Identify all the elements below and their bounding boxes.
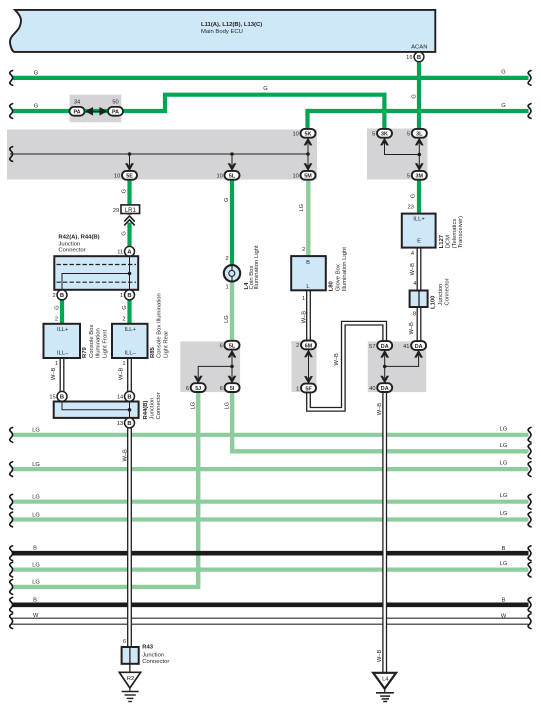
- wire G from R42 2B to R79: [60, 300, 64, 324]
- LG wire from 5I turning right: bus line 2: [232, 392, 528, 451]
- svg-text:LG: LG: [500, 493, 508, 499]
- svg-text:LG: LG: [500, 511, 508, 517]
- svg-text:LG: LG: [32, 512, 40, 518]
- svg-text:15: 15: [49, 395, 55, 401]
- terminal 2 B: [57, 290, 67, 300]
- terminal 5 3M: [407, 171, 427, 180]
- terminal 15 B: [57, 391, 67, 401]
- junction dot: [128, 272, 132, 276]
- svg-text:2: 2: [226, 256, 229, 262]
- G bus line 1: [12, 76, 529, 80]
- svg-text:2: 2: [53, 293, 56, 299]
- wire G from 5E to LR1 and to R42 A: [127, 180, 131, 205]
- svg-text:G: G: [34, 104, 38, 110]
- svg-text:R43: R43: [142, 645, 154, 651]
- G bus line 2 with step, to 3K: [12, 95, 384, 129]
- svg-text:G: G: [55, 305, 61, 309]
- LG bus line 1: [12, 433, 529, 437]
- gray connector shield block 2 (3K/3L/3M): [367, 129, 428, 180]
- svg-text:R44(B): R44(B): [143, 400, 149, 419]
- svg-text:13: 13: [117, 421, 123, 427]
- terminal 6 5J: [186, 383, 206, 392]
- LG wire from 5J turning left: bus line 8: [12, 392, 198, 587]
- svg-text:1: 1: [55, 361, 58, 367]
- svg-text:Transceiver): Transceiver): [458, 216, 464, 249]
- svg-text:B: B: [502, 598, 506, 604]
- svg-text:B: B: [306, 260, 310, 266]
- svg-text:10: 10: [292, 132, 298, 138]
- LG bus line 5: [12, 517, 529, 521]
- svg-text:L4: L4: [382, 677, 389, 683]
- svg-text:L80: L80: [329, 280, 335, 291]
- svg-text:B: B: [60, 395, 64, 401]
- svg-text:W–B: W–B: [409, 322, 415, 335]
- svg-text:Illumination Light: Illumination Light: [254, 245, 260, 290]
- svg-text:R42(A), R44(B): R42(A), R44(B): [58, 235, 99, 241]
- svg-text:B: B: [502, 546, 506, 552]
- svg-text:40: 40: [369, 386, 375, 392]
- terminal 1 5F: [296, 384, 316, 393]
- svg-text:W: W: [33, 613, 39, 619]
- svg-text:B: B: [33, 546, 37, 552]
- svg-text:10: 10: [292, 174, 298, 180]
- svg-text:10: 10: [114, 174, 120, 180]
- svg-text:Console Box Illumination: Console Box Illumination: [157, 293, 163, 358]
- svg-text:Light Front: Light Front: [102, 329, 108, 358]
- svg-text:ILL–: ILL–: [125, 351, 137, 357]
- gray block 3 (5L/5J/5I): [180, 341, 240, 392]
- terminal 10 5L: [216, 171, 239, 180]
- terminal 6 5I: [220, 383, 240, 392]
- svg-text:R85: R85: [150, 346, 156, 358]
- svg-text:2: 2: [55, 317, 58, 323]
- svg-text:LG: LG: [32, 495, 40, 501]
- wire to ground R2: [129, 664, 131, 673]
- svg-text:B: B: [127, 421, 131, 427]
- svg-text:LG: LG: [224, 402, 230, 410]
- wire G from 5L to coin box lamp: [230, 180, 234, 265]
- svg-text:3L: 3L: [416, 132, 423, 138]
- svg-text:3M: 3M: [416, 174, 424, 180]
- svg-text:5: 5: [407, 174, 410, 180]
- wire LG from lamp to 5L lower block: [230, 281, 234, 341]
- junction dot: [128, 152, 132, 156]
- svg-text:10: 10: [216, 174, 222, 180]
- terminal 57 DA: [369, 341, 392, 350]
- W-B wire 5F loop to 57DA: [309, 323, 385, 409]
- svg-text:LG: LG: [224, 315, 230, 323]
- shield block 4 internal wire: [308, 350, 310, 384]
- terminal 10 5K: [292, 129, 315, 138]
- svg-text:G: G: [122, 305, 128, 309]
- wire G from R42 1B to R85: [127, 300, 131, 324]
- svg-text:W–B: W–B: [334, 353, 340, 366]
- gray block PA inline connector: [70, 95, 122, 123]
- svg-text:B: B: [33, 597, 37, 603]
- junction connector R42(A)/R44(B) box: [54, 256, 138, 290]
- svg-text:Main Body ECU: Main Body ECU: [201, 29, 243, 35]
- terminal 14 B: [125, 391, 135, 401]
- svg-text:B: B: [60, 293, 64, 299]
- svg-text:LG: LG: [32, 580, 40, 586]
- svg-text:LG: LG: [299, 204, 305, 212]
- W bus line 10 (outlined white wire): [12, 618, 529, 625]
- shield block 2 internal wires: [385, 138, 420, 155]
- svg-text:5: 5: [407, 132, 410, 138]
- svg-text:5: 5: [372, 132, 375, 138]
- svg-text:Illumination: Illumination: [96, 328, 102, 358]
- W-B wire R79 to 15B: [60, 358, 65, 392]
- gray connector shield block 1 (5E/5L/5K/5M): [7, 130, 317, 180]
- svg-text:1: 1: [302, 296, 305, 302]
- terminal 13 B: [125, 418, 135, 428]
- svg-text:6: 6: [186, 386, 189, 392]
- svg-text:LG: LG: [191, 402, 197, 410]
- junction dot: [230, 365, 234, 369]
- main body ECU box: [10, 10, 435, 52]
- svg-text:ILL+: ILL+: [124, 327, 136, 333]
- W-B wire 13B down to R43: [127, 428, 132, 647]
- connector PA pin 50: [108, 99, 123, 115]
- svg-text:Connector: Connector: [444, 278, 450, 305]
- svg-text:Glove Box: Glove Box: [335, 264, 341, 291]
- svg-text:LR1: LR1: [125, 208, 137, 214]
- svg-text:R79: R79: [82, 346, 88, 358]
- svg-text:LG: LG: [32, 562, 40, 568]
- W-B wire 40DA down to ground: [382, 393, 387, 673]
- svg-text:6: 6: [220, 344, 223, 350]
- shield block 5 internal wires: [384, 350, 386, 384]
- svg-text:LG: LG: [500, 426, 508, 432]
- terminal 40 DA: [369, 383, 392, 392]
- svg-text:1: 1: [296, 386, 299, 392]
- junction dot: [418, 153, 422, 157]
- terminal 1 B: [125, 290, 135, 300]
- svg-text:5E: 5E: [126, 174, 133, 180]
- svg-text:W–B: W–B: [123, 449, 129, 462]
- svg-text:5K: 5K: [305, 132, 312, 138]
- B bus line 9: [12, 602, 529, 607]
- wire G from ECU pin 16 B to 3L: [417, 62, 421, 129]
- svg-text:G: G: [122, 231, 128, 235]
- svg-text:6M: 6M: [305, 343, 313, 349]
- svg-text:6: 6: [220, 386, 223, 392]
- svg-text:50: 50: [112, 99, 118, 105]
- svg-text:G: G: [263, 86, 267, 92]
- W-B wire L100 to 41DA: [417, 307, 422, 341]
- shield block 1 internal bus wire: [10, 153, 308, 155]
- svg-text:Connector: Connector: [156, 392, 162, 419]
- terminal 5 3K: [372, 129, 392, 138]
- svg-text:11: 11: [117, 250, 123, 256]
- svg-text:3K: 3K: [381, 132, 388, 138]
- svg-text:G: G: [501, 103, 505, 109]
- svg-text:G: G: [34, 70, 38, 76]
- svg-text:W–B: W–B: [377, 403, 383, 416]
- svg-text:G: G: [411, 94, 417, 98]
- svg-text:W–B: W–B: [377, 649, 383, 662]
- svg-text:14: 14: [117, 395, 123, 401]
- junction dot: [383, 365, 387, 369]
- svg-text:LG: LG: [32, 462, 40, 468]
- svg-text:W: W: [501, 613, 507, 619]
- svg-text:PA: PA: [112, 109, 119, 115]
- connector PA pin 34: [70, 99, 85, 115]
- svg-text:29: 29: [113, 208, 119, 214]
- svg-text:Junction: Junction: [142, 653, 164, 659]
- svg-text:34: 34: [74, 99, 80, 105]
- svg-text:5L: 5L: [229, 174, 236, 180]
- terminal 10 5M: [292, 171, 315, 180]
- shield block 3 internal wires: [231, 350, 233, 384]
- svg-text:Illumination Light: Illumination Light: [342, 247, 348, 292]
- svg-text:G: G: [122, 189, 128, 193]
- svg-text:PA: PA: [73, 109, 80, 115]
- svg-text:4: 4: [413, 281, 416, 287]
- W-B wire L80 to 6M: [306, 290, 311, 340]
- svg-text:2: 2: [296, 343, 299, 349]
- double chevron connector mark: [123, 215, 136, 223]
- terminal 6 5L lower: [220, 341, 240, 350]
- svg-text:ACAN: ACAN: [411, 44, 427, 50]
- svg-text:DA: DA: [381, 386, 389, 392]
- svg-text:6: 6: [123, 639, 126, 645]
- svg-text:B: B: [127, 395, 131, 401]
- svg-text:4: 4: [411, 251, 414, 257]
- svg-text:1: 1: [226, 285, 229, 291]
- terminal 11 A: [125, 246, 135, 256]
- svg-text:E: E: [417, 238, 421, 244]
- svg-text:Junction: Junction: [150, 398, 156, 420]
- terminal 5 3L: [407, 129, 427, 138]
- wire LG from 5M to glove box light L80: [306, 180, 310, 256]
- junction connector R44(B) box: [54, 402, 139, 418]
- svg-text:1: 1: [120, 293, 123, 299]
- svg-text:5F: 5F: [305, 386, 312, 392]
- terminal 41 DA: [403, 341, 426, 350]
- svg-text:2: 2: [122, 317, 125, 323]
- svg-text:G: G: [501, 70, 505, 76]
- LG bus line 4: [12, 500, 529, 504]
- B bus line 6: [12, 551, 529, 556]
- svg-text:Light Rear: Light Rear: [163, 331, 169, 358]
- svg-text:Junction: Junction: [438, 284, 444, 306]
- svg-text:LG: LG: [500, 461, 508, 467]
- svg-text:L11(A), L12(B), L13(C): L11(A), L12(B), L13(C): [201, 22, 262, 28]
- gray block 5 (DA): [368, 341, 426, 392]
- junction dot: [128, 408, 132, 412]
- svg-text:8: 8: [413, 311, 416, 317]
- svg-text:ILL–: ILL–: [57, 351, 69, 357]
- torn edge marks left: [10, 71, 13, 86]
- svg-text:DCM: DCM: [446, 235, 452, 249]
- svg-text:W–B: W–B: [410, 263, 416, 276]
- svg-text:Connector: Connector: [142, 659, 169, 665]
- terminal 2 6M: [296, 341, 316, 350]
- ground R2: [119, 672, 140, 688]
- svg-text:5J: 5J: [195, 386, 201, 392]
- svg-text:DA: DA: [381, 344, 389, 350]
- svg-text:2: 2: [302, 247, 305, 253]
- svg-text:G: G: [224, 198, 230, 202]
- svg-text:41: 41: [403, 344, 409, 350]
- LR1 fusible link box: [121, 205, 140, 214]
- svg-text:LG: LG: [500, 561, 508, 567]
- svg-text:R2: R2: [127, 676, 134, 682]
- svg-text:Console Box: Console Box: [89, 325, 95, 358]
- svg-text:W–B: W–B: [51, 367, 57, 380]
- svg-text:16: 16: [406, 55, 412, 61]
- svg-text:23: 23: [407, 204, 413, 210]
- LG bus line 7: [12, 567, 529, 571]
- wire G from 3M to DCM: [417, 180, 421, 214]
- junction dot: [306, 152, 310, 156]
- svg-text:ILL+: ILL+: [413, 217, 425, 223]
- W-B wire DCM E to L100: [417, 248, 422, 291]
- svg-text:DA: DA: [415, 344, 423, 350]
- svg-text:L100: L100: [431, 295, 437, 309]
- torn edge marks right: [528, 71, 531, 86]
- svg-text:B: B: [127, 293, 131, 299]
- ground L4: [373, 673, 396, 689]
- terminal 10 5E: [114, 171, 137, 180]
- svg-text:L127: L127: [439, 234, 445, 248]
- svg-text:LG: LG: [500, 443, 508, 449]
- ECU terminal 16 B: [414, 52, 424, 62]
- svg-text:57: 57: [369, 344, 375, 350]
- junction dot: [230, 152, 234, 156]
- svg-text:W–B: W–B: [301, 311, 307, 324]
- svg-text:Junction: Junction: [58, 241, 80, 247]
- svg-text:W–B: W–B: [118, 367, 124, 380]
- svg-text:5L: 5L: [229, 344, 236, 350]
- svg-text:Connector: Connector: [58, 248, 85, 254]
- svg-text:1: 1: [122, 361, 125, 367]
- gray block 4 (6M/5F): [291, 341, 316, 392]
- svg-text:B: B: [417, 55, 421, 61]
- svg-text:G: G: [410, 194, 416, 198]
- W-B wire R85 to 14B: [127, 358, 132, 392]
- svg-text:5I: 5I: [230, 386, 235, 392]
- G bus line 3 right, to 5K: [308, 111, 529, 129]
- svg-text:ILL+: ILL+: [57, 327, 69, 333]
- svg-text:5M: 5M: [304, 174, 312, 180]
- LG bus line 3: [12, 467, 529, 471]
- svg-text:LG: LG: [32, 428, 40, 434]
- inline connector PA-PA: [86, 110, 107, 112]
